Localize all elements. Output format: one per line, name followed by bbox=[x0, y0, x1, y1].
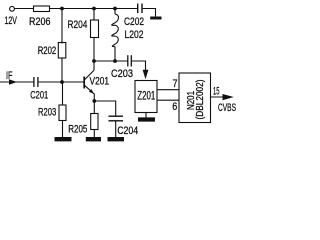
arrow IF bbox=[9, 79, 17, 84]
svg-text:C202: C202 bbox=[124, 16, 144, 28]
svg-text:Z201: Z201 bbox=[137, 91, 155, 103]
filter Z201 bbox=[135, 81, 157, 113]
capacitor C204 bbox=[109, 115, 124, 117]
wire bbox=[114, 9, 116, 15]
arrow CVBS out bbox=[223, 94, 234, 100]
junction bbox=[60, 7, 64, 11]
svg-text:R205: R205 bbox=[68, 123, 87, 135]
svg-text:(DBL2002): (DBL2002) bbox=[195, 80, 206, 120]
wire collector bbox=[93, 61, 95, 70]
capacitor C203 bbox=[127, 55, 129, 66]
wire bbox=[93, 9, 95, 21]
ground bbox=[150, 17, 161, 20]
capacitor C202 bbox=[137, 4, 139, 14]
wire bbox=[61, 58, 63, 82]
junction bbox=[92, 59, 96, 63]
wire bbox=[132, 61, 146, 73]
svg-text:R206: R206 bbox=[29, 16, 51, 28]
wire IF input bbox=[0, 81, 34, 83]
junction bbox=[92, 7, 96, 11]
svg-text:6: 6 bbox=[172, 101, 177, 113]
inductor L202 bbox=[112, 14, 119, 47]
wire bbox=[62, 82, 64, 105]
wire emitter to C204 bbox=[94, 101, 115, 116]
wire bbox=[62, 121, 64, 138]
svg-text:R202: R202 bbox=[38, 45, 57, 57]
junction base node bbox=[60, 80, 64, 84]
node wire (collector net) bbox=[94, 60, 128, 62]
capacitor C201 bbox=[33, 77, 35, 87]
ground bbox=[108, 137, 125, 141]
ground bbox=[86, 137, 101, 141]
wire pin15 bbox=[211, 96, 228, 98]
wire bbox=[145, 113, 147, 118]
svg-text:C201: C201 bbox=[30, 90, 48, 102]
wire base bbox=[38, 81, 83, 83]
ground bbox=[55, 137, 72, 141]
junction bbox=[113, 7, 117, 11]
IC N201 bbox=[179, 73, 211, 123]
junction emitter node bbox=[92, 99, 96, 103]
svg-text:15: 15 bbox=[213, 86, 220, 98]
wire bbox=[114, 47, 116, 62]
arrow into Z201 bbox=[143, 70, 149, 79]
transistor V201 bbox=[84, 70, 94, 94]
svg-text:12V: 12V bbox=[5, 15, 18, 27]
resistor R206 bbox=[34, 6, 50, 12]
svg-text:L202: L202 bbox=[125, 29, 144, 41]
resistor R202 bbox=[58, 43, 66, 59]
svg-text:CVBS: CVBS bbox=[218, 102, 236, 114]
wire pin6 bbox=[157, 99, 179, 101]
svg-text:C204: C204 bbox=[117, 125, 138, 137]
terminal 12V bbox=[10, 6, 15, 11]
wire bbox=[61, 9, 63, 44]
wire top rail bbox=[50, 8, 138, 10]
svg-text:7: 7 bbox=[173, 78, 178, 90]
wire bbox=[143, 9, 156, 18]
svg-text:C203: C203 bbox=[111, 68, 133, 80]
svg-text:R203: R203 bbox=[38, 107, 56, 119]
resistor R203 bbox=[59, 105, 66, 121]
wire bbox=[93, 130, 95, 138]
junction bbox=[113, 59, 117, 63]
svg-text:R204: R204 bbox=[68, 19, 88, 31]
wire bbox=[93, 38, 95, 62]
wire bbox=[15, 8, 34, 10]
resistor R205 bbox=[91, 114, 98, 130]
wire bbox=[115, 121, 117, 137]
wire pin7 bbox=[157, 89, 179, 91]
resistor R204 bbox=[91, 20, 99, 38]
svg-text:V201: V201 bbox=[90, 76, 110, 88]
wire emitter bbox=[93, 94, 95, 114]
ground bbox=[138, 117, 155, 121]
